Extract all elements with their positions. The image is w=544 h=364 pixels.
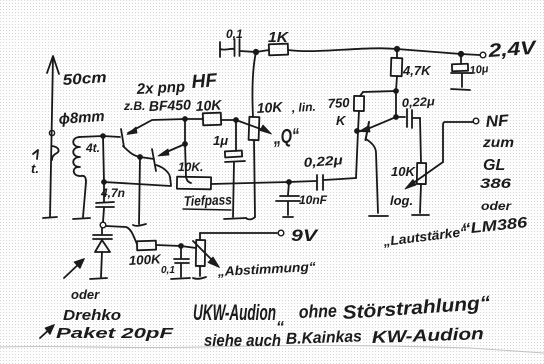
Q3 collector end bar [369,215,388,217]
svg-text:ohne: ohne [298,301,337,322]
svg-text:GL: GL [483,157,505,174]
capacitor 10u bottom plate [451,72,472,74]
cap 0,1 lower lead [180,246,182,258]
potentiometer 10K log box [417,163,426,184]
NF terminal circle [473,118,479,124]
svg-text:“: “ [276,319,284,336]
coil L1 4 turns [73,137,86,182]
svg-text:B.Kainkas: B.Kainkas [286,328,363,348]
node top rail A [254,50,258,54]
svg-text:10K: 10K [256,99,283,116]
wire cap to node [240,51,256,52]
wire to middle 0,22u cap [324,178,356,180]
node I [179,244,183,248]
wire node B to node C [397,49,461,54]
capacitor 1u bottom plate [225,161,245,162]
node G [287,180,291,184]
10u top lead [460,54,462,64]
varicap top lead [101,228,103,234]
resistor 4,7K lead top [396,49,398,58]
Q pot wiper arrowhead [260,125,272,134]
svg-text:oder: oder [481,199,513,213]
svg-text:ϕ8mm: ϕ8mm [58,108,105,128]
node F [394,115,398,119]
Q2 emitter arrowhead [158,149,169,156]
wire node to 1K [256,50,269,52]
wire 4,7n node [104,182,171,186]
svg-text:t.: t. [31,161,39,176]
wire node D down to node F [395,91,397,117]
pot bottom lead [420,184,421,213]
bar end [133,224,146,226]
Q2 emitter diagonal [162,144,185,154]
antenna end bar [43,217,57,218]
varicap bottom lead [101,252,102,277]
Q1 collector curve [123,146,140,157]
Q3 emitter arrowhead [359,126,370,133]
svg-text:siehe auch: siehe auch [204,331,281,350]
wire node G to 10K box [211,182,289,184]
transistor Q2 base bar [152,149,156,171]
potentiometer Q box [249,117,260,140]
Abstimmung pot box [196,240,205,266]
Paket arrow [40,327,52,338]
wire node H up [103,136,104,182]
10nF end bar [283,216,293,218]
resistor 1K box [269,44,288,56]
wire node D left [363,91,396,92]
node coil top [101,134,105,138]
node after 10K [234,118,238,122]
svg-text:zum: zum [482,134,514,150]
wire cap left to node G [289,181,316,182]
Tiefpass underline [183,209,231,210]
svg-text:0,1: 0,1 [226,27,243,41]
pot 10K log top lead [420,118,421,163]
capacitor 4,7n plates [96,202,114,203]
Q1 emitter wire to 10K [128,119,185,133]
Q2 collector path [156,165,171,185]
coil bottom lead [83,182,86,217]
top rail start terminal bar [219,42,221,57]
svg-text:, lin.: , lin. [290,100,316,115]
capacitor 10nF plates [280,195,299,197]
0,1 lower end bar [171,278,190,279]
wire node I to pot [181,246,196,248]
Q pot bottom lead [254,140,255,217]
svg-text:UKW-Audion: UKW-Audion [193,300,276,325]
varicap end bar [90,278,107,279]
pot end bar [412,214,429,216]
svg-text:4t.: 4t. [85,141,100,155]
svg-text:386: 386 [480,175,511,191]
10u bottom lead [461,74,463,87]
node top rail C [459,52,463,56]
varicap cap plates [93,234,112,236]
varicap diode triangle [95,240,110,252]
svg-text:10K.: 10K. [178,160,203,174]
wire node to Q1 base [103,136,120,137]
node Q1 collector [138,155,142,159]
antenna arrowhead [47,56,59,74]
wire node E to Q3 base [357,130,366,132]
wire cap to pot lead [413,117,420,119]
wire emitter node down to tiefpass [185,144,191,183]
wire 10K to node [221,119,236,121]
svg-text:0,22μ: 0,22μ [401,94,436,110]
wire node F to cap [396,116,405,118]
Q1 emitter arrowhead [127,127,137,135]
10nF lead [288,182,289,195]
terminal circle 9V [278,230,284,236]
4,7n top lead [103,182,105,202]
antenna tap circle [49,130,54,135]
capacitor 0,22u middle plates [316,175,318,190]
svg-text:HF: HF [191,70,219,93]
0,1 lower bottom lead [180,264,182,277]
wiper wire to Q pot [236,120,266,131]
lead into 750K [360,92,363,96]
10nF bottom lead [287,202,289,215]
svg-text:1μ: 1μ [213,133,228,148]
transistor Q3 base bar [366,122,370,140]
capacitor 0,1 lower plates [174,258,189,260]
svg-text:750: 750 [327,95,350,111]
svg-text:50cm: 50cm [62,69,107,89]
capacitor 10u top plate box [452,64,468,72]
Q3 emitter diagonal [365,117,396,130]
Abstimmung wiper arrow [193,241,215,263]
terminal circle varicap node [100,222,106,228]
svg-text:log.: log. [390,193,413,208]
svg-text:z.B.: z.B. [123,99,145,113]
wire to Q2 base [140,157,154,159]
svg-text:Tiefpass: Tiefpass [184,191,233,209]
node D [394,89,398,93]
terminal circle 2,4V [480,52,486,58]
svg-text:10μ: 10μ [469,63,489,77]
resistor 10K upper box [203,113,221,126]
antenna 1-turn loop [52,146,59,160]
svg-text:Drehko: Drehko [63,307,121,324]
svg-text:10K: 10K [195,97,222,114]
coil L1 top wire [79,136,103,137]
NF wire [443,122,473,162]
resistor 10K tiefpass box [177,177,211,190]
svg-text:Paket 20pF: Paket 20pF [56,325,174,342]
svg-text:NF: NF [485,112,510,131]
wire 1K to node B [288,48,397,51]
node H [102,180,106,184]
node top rail B [395,47,399,51]
1u bottom lead [233,162,234,217]
Q pot bottom hook [246,217,255,219]
svg-text:BF450: BF450 [149,97,192,114]
wire top to 10K R [185,118,203,120]
node on top wire [183,117,187,121]
svg-text:4,7n: 4,7n [100,186,125,200]
svg-text:KW-Audion: KW-Audion [371,324,484,347]
pot wiper arrow [409,162,443,186]
Q pot top lead from top rail [252,52,256,117]
Abstimmung pot bottom lead [199,266,201,276]
capacitor 0,1 plates [234,39,236,56]
svg-text:0,1: 0,1 [161,265,175,276]
pot bottom bar [193,277,206,279]
wire varicap node right [106,226,137,244]
4,7K bottom lead [396,76,397,91]
wire node C to 2,4V terminal [461,54,480,55]
svg-text:2,4V: 2,4V [487,38,538,62]
paper crease line bottom [0,346,544,353]
coil bottom bar [73,218,90,219]
svg-text:K: K [336,113,347,128]
svg-text:10nF: 10nF [299,193,328,207]
svg-text:oder: oder [71,287,100,302]
svg-text:0,22μ: 0,22μ [303,152,343,170]
resistor 4,7K box [391,58,403,76]
resistor 100K box [137,241,156,251]
wire 100K to node I [156,245,181,246]
oder arrow [64,261,82,278]
svg-text:2x pnp: 2x pnp [135,78,185,98]
svg-text:1K: 1K [268,29,289,46]
label 1 tick [33,150,38,159]
svg-text:4,7K: 4,7K [402,63,432,78]
750K bottom lead [358,111,359,131]
ground bar [451,89,470,90]
node Q2 emitter [183,142,187,146]
capacitor 1u top plate box [225,151,242,158]
svg-text:10K: 10K [391,164,416,179]
svg-text:„Q“: „Q“ [272,125,301,149]
wire node E down [356,131,358,178]
wire pot to 9V [200,232,277,234]
svg-text:9V: 9V [291,226,319,245]
Q3 collector path [366,139,378,213]
svg-text:100K: 100K [128,251,162,268]
wire emitter node up [184,119,186,144]
resistor 750K box [354,96,364,111]
wire node down to 1u cap [235,120,237,151]
4,7n bottom lead [103,208,104,222]
Abstimmung pot top lead [199,233,201,240]
1u end bar [224,218,246,219]
wire to cap 0,1 [220,48,234,51]
capacitor 0,22u top plates [406,109,408,127]
transistor Q1 base bar [121,129,124,147]
wire Q1-collector-node down [139,157,140,224]
antenna [50,57,53,217]
node E base Q3 [355,129,359,133]
